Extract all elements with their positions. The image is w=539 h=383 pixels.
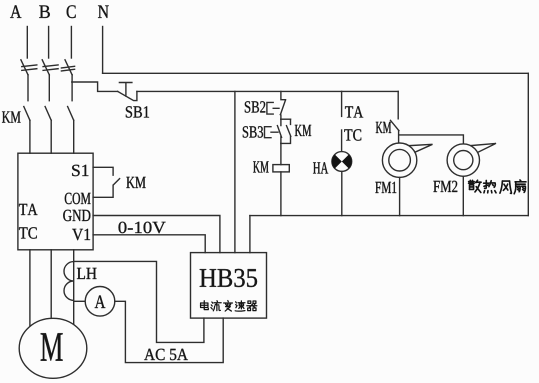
fan FM2 xyxy=(447,143,496,176)
label cooling fan (Chinese) xyxy=(469,180,526,194)
contactor KM main contact pole A xyxy=(24,107,30,121)
node N neutral label xyxy=(98,5,109,17)
wire phase A drop xyxy=(26,27,28,59)
label KM main contacts xyxy=(2,111,21,122)
label current transducer (Chinese) xyxy=(201,301,257,312)
label LH xyxy=(77,268,97,279)
wire phase C drop xyxy=(70,27,72,59)
inverter U1 box xyxy=(18,153,93,250)
contactor KM main contact pole B xyxy=(45,107,51,121)
breaker QF pole A xyxy=(21,60,37,75)
coil KM xyxy=(273,165,289,172)
label FM1 xyxy=(375,182,396,193)
node A phase label xyxy=(10,5,21,18)
pin GND label xyxy=(63,210,90,221)
pushbutton SB1 (NC) xyxy=(118,83,137,101)
wire SB2 to split xyxy=(279,115,282,120)
wire GND to HB35 xyxy=(93,216,220,253)
transducer HB35 box xyxy=(191,253,267,319)
pushbutton SB2 (NC) xyxy=(267,100,286,115)
wire riser bus to HB35 xyxy=(234,91,236,252)
label HA xyxy=(313,162,328,173)
label HB35 xyxy=(200,269,257,287)
wire KM coil to rail xyxy=(280,172,282,216)
wire C tap to SB1 xyxy=(72,82,118,91)
breaker QF pole B xyxy=(42,60,58,75)
wire bottom control rail xyxy=(250,215,528,217)
wire phase A to inverter xyxy=(29,120,31,153)
pin TA label xyxy=(19,204,37,215)
pushbutton SB3 (NO start) xyxy=(265,119,282,143)
wire rail drop to HB35 xyxy=(249,216,251,253)
label TC terminal xyxy=(344,129,361,140)
lamp HA xyxy=(332,152,352,172)
label 0-10V xyxy=(119,222,166,234)
pin V1 label xyxy=(72,229,90,240)
wire N top bus xyxy=(103,72,529,74)
wire V1 to HB35 xyxy=(93,235,205,253)
pin S1 label xyxy=(72,165,88,176)
node C phase label xyxy=(67,5,76,18)
wire LH to ammeter xyxy=(74,300,86,302)
pin TC label xyxy=(19,227,37,238)
motor M xyxy=(19,318,87,378)
contactor KM aux contact at S1 xyxy=(93,167,120,197)
contactor KM fan contact xyxy=(391,120,399,130)
current transformer LH xyxy=(64,262,74,301)
label KM coil xyxy=(253,161,268,172)
wire HA to rail xyxy=(341,171,343,215)
wire to KM coil xyxy=(280,143,282,164)
wire SB2 branch top xyxy=(281,91,286,99)
wire fan junction xyxy=(399,131,464,145)
wire TC segment xyxy=(341,130,343,152)
pin COM label xyxy=(65,193,91,204)
wire FM2 to rail xyxy=(462,176,464,215)
wire right N rail xyxy=(527,73,529,215)
wire TA branch top xyxy=(341,91,343,116)
wire N drop xyxy=(102,27,104,74)
label SB3 xyxy=(243,126,263,137)
wire phase B to inverter xyxy=(50,120,52,153)
wire inverter W output xyxy=(73,250,75,324)
wire CT secondary to HB35 xyxy=(74,261,204,342)
label SB2 xyxy=(245,101,265,112)
wire inverter U output xyxy=(29,250,31,329)
wire phase C mid xyxy=(71,75,73,101)
wire fan branch top xyxy=(397,91,399,118)
wire ammeter to HB35 xyxy=(115,301,223,362)
label KM at S1 xyxy=(126,177,145,188)
label TA terminal xyxy=(345,106,363,117)
label AC 5A xyxy=(144,349,188,360)
wire phase B mid xyxy=(48,75,50,101)
ammeter A xyxy=(85,287,115,317)
label KM fan xyxy=(376,122,391,133)
label SB1 xyxy=(126,106,149,117)
label FM2 xyxy=(433,181,457,192)
wire split to KM aux branch xyxy=(281,118,291,120)
wire FM1 to rail xyxy=(399,177,401,215)
node B phase label xyxy=(39,5,50,17)
wire phase C to inverter xyxy=(73,120,75,153)
wire control bus xyxy=(137,90,398,92)
wire inverter V output xyxy=(50,250,52,319)
breaker QF pole C xyxy=(61,60,74,75)
contactor KM aux holding contact xyxy=(281,119,291,143)
contactor KM main contact pole C xyxy=(68,107,74,121)
wire phase B drop xyxy=(48,27,50,59)
wire phase A mid xyxy=(27,75,29,101)
fan FM1 xyxy=(382,143,432,177)
label KM aux xyxy=(295,125,311,136)
